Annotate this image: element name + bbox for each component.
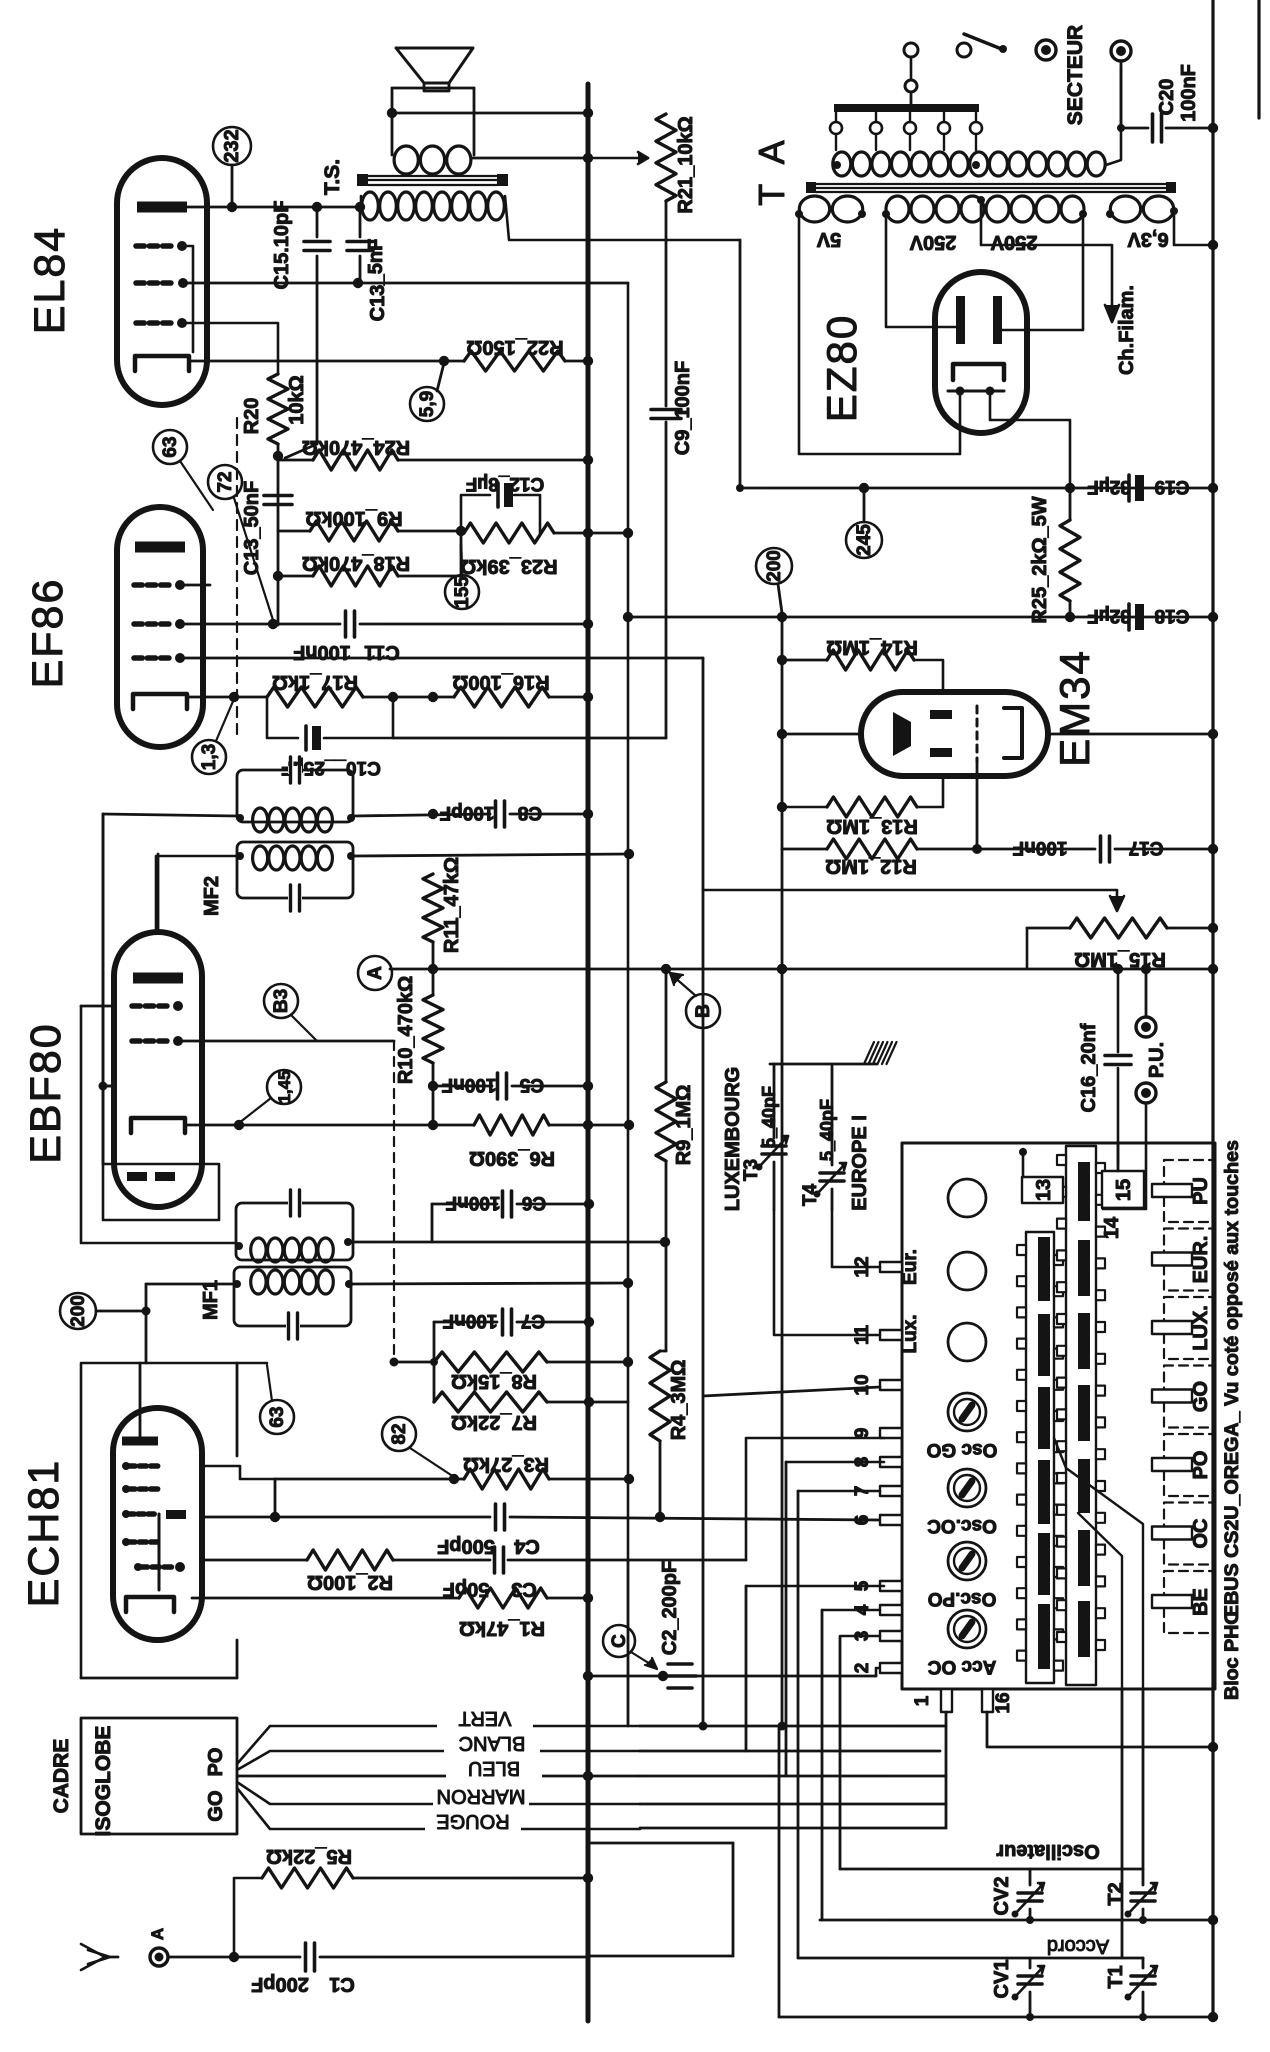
svg-text:R9_100kΩ: R9_100kΩ (305, 507, 402, 529)
svg-text:C1: C1 (329, 1973, 355, 1995)
svg-text:R3_27kΩ: R3_27kΩ (463, 1453, 549, 1475)
svg-text:Osc.OC: Osc.OC (927, 1515, 997, 1536)
svg-text:LUX.: LUX. (1190, 1305, 1212, 1351)
svg-text:PO: PO (205, 1748, 227, 1777)
svg-text:C20: C20 (1156, 79, 1178, 116)
svg-text:C12_8µF: C12_8µF (466, 473, 545, 494)
svg-text:R13_1MΩ: R13_1MΩ (826, 815, 918, 837)
svg-text:R1_47kΩ: R1_47kΩ (459, 1617, 545, 1639)
svg-text:OC: OC (1190, 1519, 1212, 1549)
svg-text:R12_1MΩ: R12_1MΩ (825, 855, 917, 877)
svg-text:100nF: 100nF (446, 1192, 501, 1213)
svg-text:LUXEMBOURG: LUXEMBOURG (722, 1067, 744, 1211)
svg-text:C7: C7 (521, 1310, 545, 1331)
svg-text:EL84: EL84 (26, 226, 74, 334)
svg-text:ECH81: ECH81 (20, 1459, 68, 1608)
svg-text:R16_100Ω: R16_100Ω (452, 671, 549, 693)
svg-text:EZ80: EZ80 (818, 314, 865, 422)
svg-text:R17_1kΩ: R17_1kΩ (272, 671, 358, 693)
svg-text:2: 2 (852, 1663, 873, 1674)
svg-text:C18: C18 (1155, 605, 1190, 626)
svg-text:ROUGE: ROUGE (436, 1810, 509, 1832)
svg-text:1: 1 (912, 1695, 933, 1706)
svg-text:5V: 5V (816, 228, 841, 250)
svg-text:R5_22kΩ: R5_22kΩ (266, 1845, 352, 1867)
svg-text:R4_3MΩ: R4_3MΩ (668, 1360, 690, 1441)
svg-text:Osc GO: Osc GO (927, 1439, 998, 1460)
svg-text:155: 155 (452, 576, 473, 608)
svg-text:C6: C6 (522, 1192, 546, 1213)
svg-text:100nF: 100nF (1178, 64, 1200, 122)
svg-text:MF2: MF2 (201, 876, 223, 916)
svg-text:5_40pF: 5_40pF (817, 1099, 837, 1161)
svg-text:R6_390Ω: R6_390Ω (469, 1147, 555, 1169)
svg-text:BLANC: BLANC (459, 1732, 526, 1754)
svg-text:100nF: 100nF (443, 1310, 498, 1331)
svg-text:BLEU: BLEU (468, 1757, 520, 1779)
svg-text:Acc OC: Acc OC (927, 1656, 996, 1677)
svg-text:R9_1MΩ: R9_1MΩ (673, 1085, 695, 1166)
svg-text:C4: C4 (513, 1535, 539, 1557)
svg-text:R2_100Ω: R2_100Ω (307, 1571, 393, 1593)
svg-text:PU: PU (1190, 1177, 1212, 1205)
svg-text:10kΩ: 10kΩ (286, 375, 308, 424)
svg-text:200: 200 (68, 1295, 89, 1327)
svg-text:6,3V: 6,3V (1127, 228, 1169, 250)
svg-text:R21_10kΩ: R21_10kΩ (675, 116, 697, 213)
svg-text:C5: C5 (519, 1074, 544, 1095)
svg-text:A: A (365, 966, 386, 980)
svg-text:100nF: 100nF (293, 641, 351, 663)
svg-text:100nF: 100nF (442, 1074, 497, 1095)
svg-text:EF86: EF86 (24, 578, 72, 689)
svg-text:Oscillateur: Oscillateur (996, 1840, 1100, 1862)
svg-text:13: 13 (1033, 1179, 1055, 1201)
svg-text:63: 63 (160, 436, 181, 457)
svg-text:C11: C11 (364, 641, 400, 663)
svg-text:R23_39kΩ: R23_39kΩ (460, 555, 557, 577)
svg-text:232: 232 (221, 129, 243, 162)
svg-text:ISOGLOBE: ISOGLOBE (92, 1726, 115, 1837)
svg-text:6: 6 (852, 1515, 873, 1526)
svg-text:R18_470kΩ: R18_470kΩ (302, 552, 410, 574)
svg-text:100pF: 100pF (440, 802, 495, 823)
svg-text:R14_1MΩ: R14_1MΩ (826, 636, 918, 658)
svg-text:C2_200pF: C2_200pF (659, 1561, 681, 1656)
svg-text:82: 82 (389, 1423, 410, 1444)
svg-text:T1: T1 (1105, 1965, 1127, 1988)
svg-text:72: 72 (215, 471, 236, 492)
svg-text:CV2: CV2 (991, 1877, 1013, 1916)
svg-text:GO: GO (1190, 1381, 1212, 1412)
svg-text:250V: 250V (909, 231, 956, 253)
svg-text:SECTEUR: SECTEUR (1064, 25, 1087, 125)
svg-text:C19: C19 (1155, 476, 1190, 497)
svg-text:R7_22kΩ: R7_22kΩ (451, 1411, 537, 1433)
svg-text:200: 200 (764, 550, 785, 582)
svg-text:R10_470kΩ: R10_470kΩ (395, 976, 417, 1084)
svg-text:T A: T A (751, 134, 792, 205)
svg-text:5_40pF: 5_40pF (759, 1086, 779, 1148)
svg-text:32µF: 32µF (1087, 476, 1131, 497)
svg-text:C13: C13 (367, 285, 389, 322)
svg-text:15: 15 (1113, 1179, 1135, 1201)
svg-text:R20: R20 (241, 398, 263, 435)
svg-text:250V: 250V (990, 231, 1037, 253)
svg-text:CV1: CV1 (991, 1960, 1013, 1999)
svg-text:_5nF: _5nF (365, 239, 387, 287)
svg-text:100nF: 100nF (1013, 837, 1068, 858)
svg-text:T3: T3 (741, 1159, 762, 1181)
svg-text:GO: GO (205, 1790, 227, 1821)
svg-text:B3: B3 (271, 989, 292, 1013)
svg-text:Bloc PHŒBUS CS2U_OREGA_ Vu co: Bloc PHŒBUS CS2U_OREGA_ Vu coté opposé a… (1222, 1140, 1243, 1700)
svg-text:63: 63 (267, 1406, 288, 1427)
svg-text:EUR.: EUR. (1190, 1236, 1212, 1284)
svg-text:T.S.: T.S. (321, 159, 344, 195)
svg-text:VERT: VERT (459, 1707, 512, 1729)
svg-text:EUROPE I: EUROPE I (849, 1115, 871, 1211)
svg-text:32µF: 32µF (1087, 605, 1131, 626)
svg-text:500pF: 500pF (437, 1535, 495, 1557)
svg-text:R8_15kΩ: R8_15kΩ (451, 1370, 537, 1392)
svg-text:Accord: Accord (1047, 1935, 1109, 1957)
svg-text:T4: T4 (800, 1183, 821, 1206)
svg-text:R22_150Ω: R22_150Ω (466, 336, 563, 358)
svg-text:Ch.Filam.: Ch.Filam. (1116, 285, 1138, 375)
svg-text:5,9: 5,9 (417, 391, 438, 417)
svg-text:245: 245 (854, 524, 875, 556)
svg-text:1,3: 1,3 (199, 744, 220, 770)
svg-text:C16_20nf: C16_20nf (1078, 1023, 1100, 1112)
svg-text:C8: C8 (518, 802, 542, 823)
svg-text:A: A (148, 1928, 167, 1940)
svg-text:C9_100nF: C9_100nF (672, 361, 694, 456)
svg-text:T2: T2 (1105, 1882, 1127, 1905)
svg-text:PO: PO (1190, 1451, 1212, 1480)
svg-text:R25_2kΩ_5W: R25_2kΩ_5W (1029, 496, 1051, 623)
svg-text:EM34: EM34 (1051, 649, 1098, 767)
svg-text:MARRON: MARRON (437, 1785, 526, 1807)
svg-text:R11_47kΩ: R11_47kΩ (441, 857, 463, 953)
svg-text:C15.10pF: C15.10pF (271, 201, 293, 290)
svg-text:EBF80: EBF80 (22, 1022, 70, 1163)
svg-text:CADRE: CADRE (50, 1739, 73, 1814)
svg-text:P.U.: P.U. (1146, 1042, 1168, 1078)
svg-text:16: 16 (993, 1692, 1014, 1713)
svg-text:200pF: 200pF (251, 1973, 309, 1995)
svg-text:14: 14 (1101, 1216, 1123, 1239)
svg-text:MF1: MF1 (200, 1280, 222, 1320)
svg-text:1,45: 1,45 (275, 1070, 294, 1103)
svg-text:C17: C17 (1129, 837, 1164, 858)
svg-text:10: 10 (852, 1374, 873, 1395)
svg-text:BE: BE (1190, 1588, 1212, 1616)
svg-text:R24_470kΩ: R24_470kΩ (302, 436, 410, 458)
svg-text:Osc.PO: Osc.PO (928, 1588, 997, 1609)
